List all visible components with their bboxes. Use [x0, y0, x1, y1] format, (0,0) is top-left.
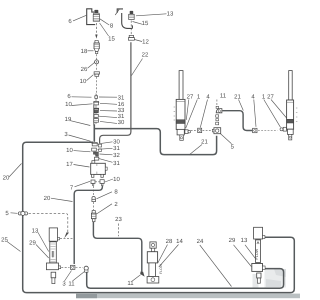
svg-text:29: 29: [229, 237, 236, 244]
svg-text:2: 2: [114, 201, 118, 208]
svg-text:14: 14: [176, 238, 183, 245]
part 8b (ball fitting): [92, 197, 96, 202]
svg-text:31: 31: [113, 160, 120, 167]
filter 13/29 right: top box: [254, 227, 265, 239]
svg-text:12: 12: [142, 39, 149, 46]
svg-text:6: 6: [67, 93, 71, 100]
svg-text:5: 5: [231, 143, 235, 150]
svg-text:31: 31: [118, 94, 125, 101]
leader 11 (pump inlet): [132, 275, 141, 282]
svg-text:8: 8: [110, 23, 114, 30]
leader 29 (left filter): [36, 245, 49, 259]
pump 14/28: top tab: [150, 242, 156, 252]
svg-text:23: 23: [115, 216, 122, 223]
part 2 (valve stem): [91, 211, 96, 222]
svg-text:33: 33: [118, 107, 125, 114]
svg-text:16: 16: [118, 101, 125, 108]
svg-text:5: 5: [5, 210, 9, 217]
svg-text:24: 24: [197, 238, 204, 245]
leader 2: [97, 204, 113, 214]
left cylinder: body: [176, 99, 185, 129]
nut 30b (lower cluster): [92, 143, 98, 146]
svg-text:25: 25: [1, 237, 8, 244]
svg-text:FLOW: FLOW: [255, 248, 259, 259]
svg-text:13: 13: [32, 227, 39, 234]
seal 33 (dark cup): [94, 108, 99, 113]
pump: upper body: [147, 252, 157, 263]
dashed line valve to part 12: [130, 21, 132, 35]
leader 3: [69, 135, 91, 141]
svg-text:21: 21: [234, 93, 241, 100]
small fitting right column a: [98, 144, 101, 147]
leader 5 (left): [11, 212, 18, 215]
leader 19: [71, 121, 91, 126]
part 12 (nut fitting): [128, 35, 134, 40]
leader 7: [75, 181, 91, 187]
leader 6 (pin): [72, 96, 92, 98]
fitting 11 (bottom, elbow): [84, 266, 88, 272]
fitting 7 (tee below box): [91, 180, 95, 185]
dashed axis above elbow: [216, 100, 218, 106]
leader 13 (left filter): [38, 233, 49, 252]
left cylinder: rod: [179, 71, 183, 100]
tube 19: [93, 105, 95, 126]
ball 26: [95, 60, 99, 64]
nut 16: [93, 101, 99, 105]
dashes between fittings 7 and 10d: [95, 181, 99, 183]
leader 20 (center): [51, 198, 73, 201]
control valve box 17: [91, 161, 108, 178]
pipe: line from valve 2 down to pump: [93, 222, 141, 272]
svg-text:18: 18: [81, 48, 88, 55]
leader 31d: [99, 159, 113, 163]
pipe: thick center vertical of control group: [93, 124, 95, 142]
leader 20 (far left): [9, 164, 22, 178]
dashed centerline with arrow (below valve 8): [95, 23, 97, 35]
small parts between elbow and tee: [216, 115, 219, 125]
dashed leader 23: [118, 224, 120, 237]
pipe: return line left loop (tank line): [23, 142, 295, 292]
cross fitting 5 (on left pipe): [18, 211, 27, 215]
dashes fitting 4 left to tee 5: [203, 129, 212, 131]
pipe: bottom suction line: [87, 269, 284, 289]
leader 8b: [97, 192, 113, 199]
fitting 10 (top): [94, 72, 99, 76]
right cylinder: base and tab: [288, 129, 294, 140]
svg-text:7: 7: [70, 184, 74, 191]
svg-text:27: 27: [187, 93, 194, 100]
leader 15 (right): [133, 22, 143, 25]
leader 17: [74, 165, 90, 168]
bracket (top right, for part 13): [117, 9, 132, 29]
fitting 3 (bottom): [71, 265, 75, 269]
svg-text:26: 26: [81, 66, 88, 73]
valve 8/15 (top left): [93, 10, 99, 21]
dashes fitting 3 to fitting 11: [76, 267, 84, 269]
bracket flange diagonal: [115, 9, 120, 16]
svg-text:11: 11: [220, 93, 227, 100]
dashed line from cross 5 to filter (with arrow): [29, 213, 68, 232]
washer 31c: [92, 148, 97, 151]
svg-text:6: 6: [68, 18, 72, 25]
svg-text:10: 10: [66, 147, 73, 154]
valve stem axis: [95, 94, 97, 125]
dashed centerline 18 to 26: [96, 54, 98, 59]
leaders 27 1 4 (left cylinder): [186, 100, 189, 120]
pipe: line from tee 7 down to filter fitting: [74, 186, 102, 264]
filter right: base block: [252, 264, 265, 272]
svg-text:30: 30: [118, 119, 125, 126]
leader 21 (left group): [189, 145, 202, 156]
filter right: middle tube with FLOW: [255, 240, 260, 263]
svg-text:31: 31: [118, 113, 125, 120]
svg-text:13: 13: [241, 237, 248, 244]
leader 22: [132, 59, 143, 76]
watermark logo: [253, 269, 287, 288]
leader 29 (right filter): [234, 245, 252, 267]
filter 13/29 left: top box: [49, 228, 59, 241]
pump: base: [147, 277, 159, 284]
bracket 6 (top left): [87, 9, 96, 25]
leader 10 (second): [72, 104, 93, 106]
svg-text:3: 3: [64, 131, 68, 138]
leader 5 (right group): [220, 133, 232, 144]
svg-text:11: 11: [127, 280, 134, 287]
leader 25: [7, 242, 21, 252]
svg-text:22: 22: [142, 52, 149, 59]
svg-text:3: 3: [62, 281, 66, 288]
leader 13 (right filter): [245, 245, 256, 260]
fitting 4 (left, between port and tee): [198, 128, 202, 132]
dashes filter top box to pipe: [60, 238, 73, 240]
filter right: bolt: [257, 273, 261, 283]
leader 8: [100, 19, 109, 25]
leader 6: [73, 15, 86, 21]
washer 30a: [94, 119, 99, 123]
svg-text:4: 4: [251, 93, 255, 100]
leader 31a: [99, 96, 117, 98]
dashes filter base to fitting 3: [61, 266, 69, 268]
elbow 32 (dark): [94, 152, 99, 156]
leader 31c: [98, 148, 113, 149]
dashed centerline to part 8b: [92, 186, 94, 197]
svg-text:13: 13: [167, 11, 174, 18]
leader 15 (left): [100, 23, 109, 36]
leader 28: [158, 245, 168, 264]
svg-text:15: 15: [108, 36, 115, 43]
svg-text:10: 10: [80, 78, 87, 85]
left cylinder hatch ticks: [174, 107, 176, 120]
svg-text:11: 11: [68, 281, 75, 288]
svg-text:10: 10: [65, 101, 72, 108]
leader 11 (bottom): [73, 272, 85, 282]
svg-text:4: 4: [206, 93, 210, 100]
fitting 10d (below box right): [100, 180, 104, 186]
filter left: middle tube with media: [50, 242, 57, 263]
leader 26: [88, 63, 95, 69]
svg-text:15: 15: [142, 20, 149, 27]
leader 24: [200, 245, 232, 287]
part 18 (injector body): [94, 40, 99, 53]
leader 18: [88, 50, 94, 52]
filter left: base block: [46, 263, 60, 270]
dashed centerline to part 2: [92, 202, 94, 210]
leader 13 (top): [136, 14, 167, 16]
elbow fitting 11 (top): [216, 106, 222, 113]
right cylinder: port: [280, 127, 287, 131]
svg-text:29: 29: [29, 239, 36, 246]
leader 16: [100, 103, 117, 104]
dashes fitting 4 right to port: [258, 130, 278, 132]
arrow into pump inlet: [140, 272, 144, 277]
leader 14: [159, 245, 179, 268]
tee fitting 5 (under left cylinder line): [212, 128, 220, 134]
pipe: elbow 11 to fitting 4 (right cylinder line): [222, 111, 252, 131]
pin (31): [95, 96, 98, 99]
svg-text:19: 19: [65, 116, 72, 123]
leader 10 (top): [87, 75, 94, 81]
svg-text:21: 21: [201, 138, 208, 145]
svg-text:31: 31: [113, 145, 120, 152]
svg-text:20: 20: [44, 195, 51, 202]
dashed centerline 26 to 10: [96, 64, 98, 71]
left cylinder: base and tab: [177, 129, 184, 140]
leader 30b: [99, 142, 113, 144]
svg-text:8: 8: [114, 189, 118, 196]
right cylinder hatch ticks: [296, 108, 298, 122]
leader 31b: [99, 116, 117, 117]
svg-text:1: 1: [262, 93, 266, 100]
valve 13/15 (top right): [129, 11, 135, 20]
svg-text:32: 32: [113, 152, 120, 159]
pipe: tube 22 from part 12 down to control group: [100, 42, 131, 143]
svg-text:1: 1: [197, 93, 201, 100]
left cylinder: port fitting: [185, 130, 191, 134]
svg-text:30: 30: [113, 139, 120, 146]
leader 30a: [100, 121, 117, 123]
svg-text:20: 20: [3, 174, 10, 181]
dashes port to fitting 4 left: [191, 129, 197, 131]
dashed centerline 10 down to pin 31: [95, 77, 97, 95]
leader 33: [100, 110, 117, 112]
right cylinder: rod: [289, 71, 293, 100]
leader 12: [135, 40, 143, 42]
washer 31b: [94, 114, 98, 117]
small fitting right column b: [99, 149, 102, 151]
pump: lower body: [149, 263, 156, 277]
svg-text:17: 17: [66, 161, 73, 168]
right cylinder: body: [287, 100, 294, 129]
filter left: bolt: [51, 272, 56, 283]
svg-text:10: 10: [113, 176, 120, 183]
svg-text:28: 28: [166, 238, 173, 245]
leader 3 (bottom): [65, 271, 72, 282]
leader 32: [100, 153, 113, 156]
leaders 21 4 1 27 (right cylinder): [239, 100, 244, 111]
watermark bottom band: [76, 294, 300, 299]
washer 31d: [95, 157, 99, 160]
leader 10d: [105, 179, 113, 182]
leader 10c: [74, 151, 91, 152]
pipe: line from control valve to tee 5 (S-shape under left cylinder): [95, 129, 217, 155]
fitting 4 (right): [253, 128, 257, 132]
svg-text:27: 27: [267, 93, 274, 100]
